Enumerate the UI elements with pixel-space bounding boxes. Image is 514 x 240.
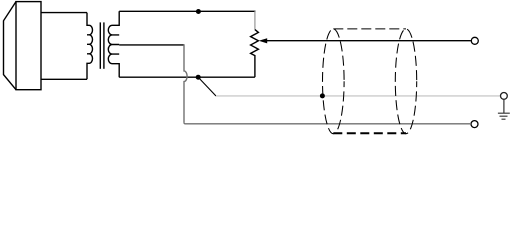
transformer T1 secondary winding	[108, 11, 119, 77]
transformer T1 primary winding	[87, 13, 92, 80]
junction dot shield to conductor	[320, 93, 325, 98]
cable shield top dashed line	[333, 28, 406, 30]
junction dot on top wire	[196, 9, 201, 14]
cable shield right ellipse	[395, 29, 416, 134]
wire gray cold conductor bottom run to cold output	[184, 123, 470, 124]
terminal cold output circle	[471, 121, 478, 128]
cable shield bottom dashed line	[333, 132, 406, 134]
wire gray cold conductor vertical with hop over bottom wire	[184, 44, 187, 122]
junction dot on bottom wire	[196, 75, 201, 80]
wire wiper to hot output	[266, 40, 471, 42]
cable shield left ellipse	[323, 29, 345, 134]
wire mic bottom to transformer primary	[41, 78, 87, 80]
potentiometer R1 zigzag	[251, 30, 259, 78]
wire diagonal from bottom junction to shield conductor	[198, 77, 216, 96]
wire mic top to transformer primary	[41, 12, 87, 14]
wire secondary top to potentiometer top	[119, 10, 255, 12]
ground symbol	[498, 99, 510, 119]
microphone MIC1 horn trapezoid	[4, 2, 17, 90]
wire secondary bottom to potentiometer bottom	[119, 76, 255, 78]
potentiometer R1 wiper arrow	[259, 38, 268, 43]
transformer T1 core	[99, 22, 101, 68]
wire light gray middle conductor to ground terminal	[216, 95, 500, 97]
terminal hot output circle	[471, 37, 478, 44]
wire center tap of secondary	[119, 44, 184, 46]
microphone MIC1 body rectangle	[16, 2, 41, 90]
terminal shield circle	[501, 93, 508, 100]
wire gray riser into potentiometer top	[254, 11, 256, 30]
